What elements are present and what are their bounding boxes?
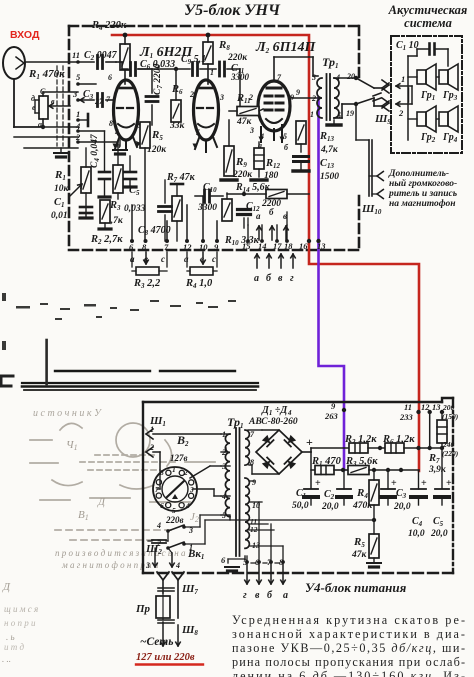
arrows into Sh10 (369, 175, 376, 177)
stub wires right terminals (247, 225, 249, 241)
svg-text:Л2 6П14П: Л2 6П14П (255, 40, 316, 55)
svg-text:13: 13 (432, 402, 441, 412)
svg-text:20,0: 20,0 (393, 502, 411, 512)
svg-text:н о п р и: н о п р и (4, 618, 36, 628)
terminal wires group 1 (131, 205, 133, 241)
pentode L2 envelope (258, 81, 290, 131)
svg-text:+: + (315, 478, 321, 489)
ghost bleedthrough faint content (30, 423, 215, 540)
svg-text:+: + (446, 478, 452, 489)
svg-text:ный громкогово-: ный громкогово- (389, 178, 457, 189)
svg-text:1: 1 (310, 110, 314, 119)
red B+ wire top rail (112, 35, 419, 471)
svg-text:1: 1 (172, 465, 176, 474)
svg-text:8: 8 (109, 119, 113, 128)
svg-text:и т д: и т д (4, 642, 24, 652)
svg-text:0,01: 0,01 (51, 211, 68, 221)
svg-text:2: 2 (248, 93, 253, 102)
svg-text:11: 11 (404, 402, 412, 412)
svg-text:19: 19 (346, 109, 354, 118)
svg-text:У5-блок УНЧ: У5-блок УНЧ (184, 2, 281, 19)
triode L1a envelope (114, 80, 139, 140)
Tr1 secondary winding HV (245, 430, 249, 465)
svg-text:Акустическая: Акустическая (388, 3, 468, 17)
svg-text:Дополнитель-: Дополнитель- (388, 169, 449, 179)
svg-text:240: 240 (442, 440, 455, 449)
svg-text:2: 2 (311, 94, 316, 103)
svg-text:47к: 47к (236, 117, 253, 127)
triode L1b envelope (194, 80, 219, 140)
svg-text:2: 2 (183, 468, 188, 477)
svg-text:4: 4 (114, 128, 119, 137)
connector forks at left of acoustic box (382, 80, 389, 90)
hatch marks on output pair (373, 93, 381, 101)
svg-text:система: система (404, 16, 452, 30)
svg-text:щ и м с я: щ и м с я (4, 604, 38, 614)
U5 block dashed border (69, 26, 359, 250)
printing bar artifacts (22, 371, 258, 390)
ground under tube L1a cathode (119, 140, 121, 146)
bridge diodes (261, 434, 273, 446)
Tr1 center tap ground (244, 556, 246, 559)
svg-text:9: 9 (296, 88, 300, 97)
svg-text:2: 2 (189, 90, 194, 99)
output wires to Sh9 (356, 78, 374, 88)
svg-text:Д: Д (97, 496, 106, 508)
speaker Gr1 (417, 64, 436, 90)
svg-text:3: 3 (249, 126, 254, 135)
balance resistor R3 2.2 (131, 252, 133, 267)
svg-text:4: 4 (185, 501, 190, 510)
svg-text:а: а (283, 590, 288, 601)
svg-text:3,9к: 3,9к (428, 465, 447, 475)
svg-text:10: 10 (199, 242, 208, 252)
switch wires to transformer (190, 466, 210, 478)
svg-text:6: 6 (160, 501, 164, 510)
svg-text:6: 6 (108, 73, 112, 82)
scattered ink specks (2, 293, 236, 350)
svg-text:и с т о ч н и к У: и с т о ч н и к У (33, 408, 102, 419)
svg-text:5: 5 (283, 132, 287, 141)
svg-text:г: г (290, 273, 294, 284)
wire pair to Sh10 (368, 140, 370, 196)
svg-text:12: 12 (183, 242, 192, 252)
svg-text:R4 1,0: R4 1,0 (185, 278, 213, 290)
svg-text:~Сеть: ~Сеть (140, 636, 173, 648)
svg-text:а: а (256, 211, 261, 221)
svg-text:4,7к: 4,7к (320, 145, 339, 155)
L2 pin stub wires (261, 125, 282, 142)
svg-text:R2 2,7к: R2 2,7к (90, 234, 123, 246)
speaker connections (408, 76, 417, 78)
Tr1 secondary winding LV (245, 478, 249, 548)
svg-text:4: 4 (156, 521, 161, 530)
svg-text:127 или 220в: 127 или 220в (136, 652, 195, 663)
U4 power supply border (143, 398, 453, 573)
connector hatch bottom (158, 620, 174, 623)
speaker Gr4 (439, 106, 458, 132)
svg-text:20,0: 20,0 (321, 502, 339, 512)
shield dashed lines (57, 66, 63, 146)
svg-text:+: + (421, 478, 427, 489)
speaker wiring bus (407, 56, 409, 140)
bridge AC connections (248, 429, 262, 431)
svg-text:47к: 47к (351, 550, 368, 560)
svg-text:+: + (306, 435, 313, 449)
svg-text:15: 15 (242, 241, 251, 251)
svg-text:г: г (243, 590, 247, 601)
svg-text:С4 0,047: С4 0,047 (90, 133, 101, 168)
svg-text:4: 4 (175, 561, 180, 570)
svg-text:11: 11 (72, 50, 80, 60)
svg-text:с: с (212, 254, 216, 264)
svg-text:на магнитофон: на магнитофон (389, 198, 456, 209)
ground input (60, 148, 62, 152)
svg-text:1: 1 (76, 109, 80, 119)
svg-text:10,0: 10,0 (408, 529, 425, 539)
secondary output terminals 5-8 (245, 560, 249, 564)
wire rows into box (80, 98, 94, 103)
svg-text:Пр: Пр (135, 603, 151, 615)
wire input to C2 (25, 61, 94, 63)
svg-text:. ..: . .. (2, 654, 11, 664)
wire 12 down (429, 412, 431, 448)
svg-text:1500: 1500 (320, 172, 339, 182)
svg-text:б: б (269, 207, 274, 217)
svg-text:263: 263 (324, 411, 339, 421)
svg-text:3: 3 (219, 93, 224, 102)
svg-text:R7 47к: R7 47к (166, 172, 196, 184)
svg-text:(220): (220) (442, 449, 459, 458)
terminal wires group 2 (186, 205, 188, 241)
svg-text:АВС-80-260: АВС-80-260 (248, 417, 298, 427)
svg-text:2: 2 (149, 443, 154, 452)
Tr1 core (235, 428, 237, 556)
purple wire to power supply (319, 98, 345, 470)
svg-text:16: 16 (299, 241, 308, 251)
svg-text:50,0: 50,0 (292, 501, 309, 511)
Tr1 primary connection wires (221, 433, 230, 435)
svg-text:233: 233 (399, 412, 414, 422)
svg-text:в: в (51, 97, 55, 106)
L1a pin stub wires (115, 137, 137, 150)
arrows to letters g v b a (245, 562, 250, 584)
svg-text:3300: 3300 (197, 203, 217, 213)
svg-text:ВХОД: ВХОД (10, 29, 40, 41)
svg-text:а: а (254, 273, 259, 284)
up arrows group right upper (257, 226, 262, 240)
svg-text:+: + (391, 478, 397, 489)
input jack X1 (3, 47, 25, 79)
svg-text:рина полосы пропускания при ос: рина полосы пропускания при ослаб- (232, 655, 465, 669)
svg-text:в: в (278, 273, 283, 284)
svg-text:лении на 6 дб —130÷160 кгц: лении на 6 дб —130÷160 кгц. Из- (232, 669, 465, 677)
svg-text:п р о и з в о д и т с я з а: п р о и з в о д и т с я з а п и с ь н а (55, 548, 186, 558)
svg-text:. ь: . ь (6, 632, 15, 642)
svg-text:С1 10: С1 10 (396, 40, 419, 52)
connector hatch top (158, 588, 174, 591)
L1b pin stub wires (195, 137, 217, 152)
svg-text:в: в (255, 590, 260, 601)
svg-text:18: 18 (284, 241, 293, 251)
svg-text:С8 4700: С8 4700 (138, 225, 171, 237)
Tr1 wires (334, 77, 356, 79)
speaker Gr3 (439, 64, 458, 90)
speaker Gr2 (417, 106, 436, 132)
svg-text:г: г (212, 131, 215, 140)
svg-text:С2 0047: С2 0047 (84, 50, 118, 62)
svg-text:пазоне УКВ—0,25÷0,35 дб/кгц, ш: пазоне УКВ—0,25÷0,35 дб/кгц, ши- (232, 641, 465, 655)
svg-text:3: 3 (72, 89, 78, 99)
caption paragraph (232, 613, 465, 677)
svg-text:5: 5 (172, 506, 176, 515)
svg-text:4: 4 (287, 409, 292, 417)
mains arrows (161, 622, 166, 646)
svg-text:5: 5 (196, 128, 200, 137)
arrows 1 2 acoustic input (396, 84, 412, 89)
svg-text:10к: 10к (54, 184, 70, 194)
svg-text:ритель и запись: ритель и запись (388, 189, 458, 199)
svg-text:Д: Д (2, 581, 11, 593)
svg-text:1: 1 (401, 74, 405, 84)
svg-text:R3 2,2: R3 2,2 (133, 278, 161, 290)
svg-text:220к: 220к (227, 53, 248, 63)
svg-text:20: 20 (346, 72, 355, 81)
wires rows to cluster (78, 130, 105, 132)
svg-text:127в: 127в (170, 453, 188, 463)
svg-text:200: 200 (442, 403, 455, 412)
up arrows below box (255, 254, 260, 268)
svg-text:1: 1 (150, 425, 154, 434)
svg-text:2: 2 (398, 108, 404, 118)
secondary wires to terminals (249, 480, 255, 482)
svg-text:20,0: 20,0 (430, 529, 448, 539)
bridge diamond (256, 430, 302, 474)
L2 wires (273, 57, 275, 81)
Tr1 primary winding (225, 434, 230, 517)
svg-text:9: 9 (252, 478, 256, 487)
svg-text:220в: 220в (165, 515, 184, 525)
svg-text:в: в (117, 141, 121, 150)
red underline mains voltage (136, 663, 203, 665)
svg-text:Д1 ÷Д: Д1 ÷Д (261, 405, 288, 417)
svg-text:R4 220к: R4 220к (91, 20, 127, 32)
svg-text:3: 3 (311, 73, 316, 82)
svg-text:У4-блок питания: У4-блок питания (305, 580, 407, 595)
balance resistor R4 1.0 (186, 252, 188, 267)
svg-text:3: 3 (145, 561, 150, 570)
svg-text:с: с (161, 254, 165, 264)
svg-text:0,033: 0,033 (124, 204, 146, 214)
acoustic system dash-dot box (391, 36, 462, 153)
wires pot taps (42, 92, 44, 96)
svg-text:R1 470к: R1 470к (28, 68, 65, 81)
